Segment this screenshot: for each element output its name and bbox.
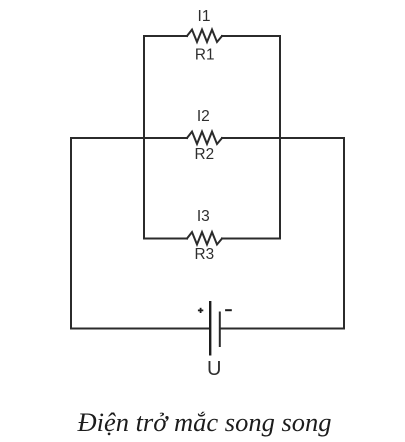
svg-text:I3: I3 [197, 208, 210, 225]
wire top branch right [222, 35, 280, 37]
svg-text:I1: I1 [198, 8, 211, 25]
svg-text:I2: I2 [197, 108, 210, 125]
wire top branch left [144, 35, 187, 37]
svg-text:U: U [207, 358, 221, 380]
resistor R2 [187, 132, 222, 144]
wire outer right vertical [343, 138, 345, 329]
wire battery to bottom right [221, 328, 345, 330]
battery U negative plate [219, 312, 221, 348]
battery plus sign [198, 308, 203, 313]
battery U positive plate [209, 301, 211, 356]
wire bottom inner branch right [222, 238, 280, 240]
wire middle branch left [71, 137, 187, 139]
svg-text:R3: R3 [195, 246, 215, 263]
wire bottom left to battery [71, 328, 209, 330]
battery minus sign [225, 309, 232, 311]
svg-text:R2: R2 [195, 146, 215, 163]
wire bottom inner branch left [144, 238, 187, 240]
wire middle branch right [222, 137, 344, 139]
resistor R3 [187, 232, 222, 244]
wire inner vertical left [143, 36, 145, 239]
svg-text:Điện trở mắc song song: Điện trở mắc song song [76, 407, 331, 437]
wire inner vertical right [279, 36, 281, 239]
svg-text:R1: R1 [195, 46, 215, 63]
resistor R1 [187, 30, 222, 42]
wire outer left vertical [70, 138, 72, 329]
